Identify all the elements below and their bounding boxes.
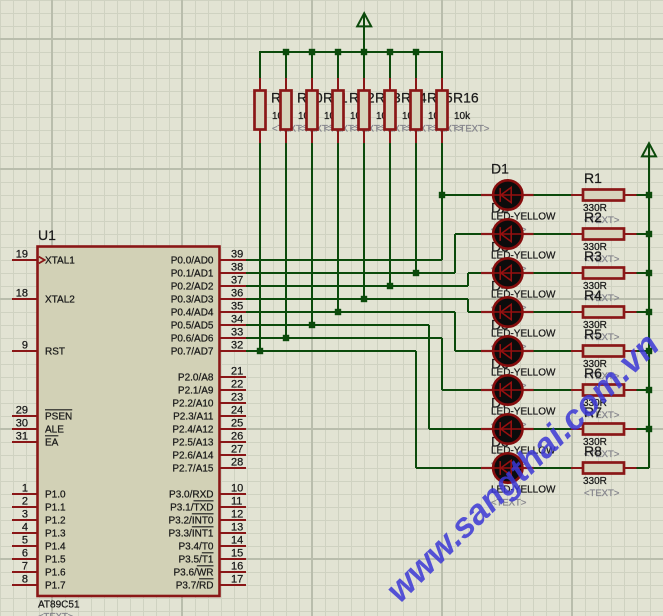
LED D5 (LED-YELLOW) [481, 336, 534, 365]
label R12 ref/value [349, 89, 386, 134]
svg-text:14: 14 [231, 535, 243, 547]
wire R14 bottom to P0 row [389, 143, 391, 286]
svg-text:P3.3/INT1: P3.3/INT1 [168, 529, 213, 540]
junction on right rail y=390 [646, 387, 652, 393]
svg-text:17: 17 [231, 574, 243, 586]
svg-text:<TEXT>: <TEXT> [584, 488, 620, 499]
pin 7 P1.6 (left) [12, 561, 66, 579]
wire P0.7 net [246, 351, 481, 468]
svg-text:35: 35 [231, 301, 243, 313]
resistor R8 (330R) [534, 463, 650, 474]
pin 21 P2.0/A8 (right) [178, 366, 246, 384]
svg-text:P0.3/AD3: P0.3/AD3 [171, 295, 214, 306]
junction on right rail y=312 [646, 309, 652, 315]
pin 27 P2.6/A14 (right) [172, 444, 246, 462]
svg-text:P2.4/A12: P2.4/A12 [172, 425, 214, 436]
wire P0.3 net [246, 299, 481, 312]
label R5 ref/value [583, 326, 620, 382]
junction on right rail y=234 [646, 231, 652, 237]
svg-text:1: 1 [22, 483, 28, 495]
pin 4 P1.3 (left) [12, 522, 66, 540]
svg-text:R5: R5 [584, 326, 602, 342]
LED D1 (LED-YELLOW) [481, 180, 534, 209]
resistor R6 (330R) [534, 385, 650, 396]
svg-text:11: 11 [231, 496, 242, 508]
label R16 ref/value [453, 89, 490, 134]
svg-text:P3.0/RXD: P3.0/RXD [169, 490, 213, 501]
pin 35 P0.4/AD4 (right) [171, 301, 246, 319]
svg-text:P0.6/AD6: P0.6/AD6 [171, 334, 214, 345]
resistor R7 (330R) [534, 424, 650, 435]
label D8 ref/value [491, 433, 556, 508]
svg-text:31: 31 [16, 431, 28, 443]
junction column x=286 on P0 row [283, 335, 289, 341]
wire P0.2 net [246, 273, 481, 286]
LED D4 (LED-YELLOW) [481, 297, 534, 326]
pin 36 P0.3/AD3 (right) [171, 288, 246, 306]
svg-text:D1: D1 [491, 160, 509, 176]
junction on top rail x=364 [361, 49, 367, 55]
svg-text:P0.7/AD7: P0.7/AD7 [171, 347, 214, 358]
pin 32 P0.7/AD7 (right) [171, 340, 246, 358]
svg-text:P2.7/A15: P2.7/A15 [172, 464, 214, 475]
svg-text:13: 13 [231, 522, 243, 534]
junction column x=338 on P0 row [335, 309, 341, 315]
svg-text:36: 36 [231, 288, 243, 300]
junction on top rail x=390 [387, 49, 393, 55]
svg-text:39: 39 [231, 249, 243, 261]
label R8 ref/value [583, 443, 620, 499]
junction on right rail y=195 [646, 192, 652, 198]
op-amp U1 body rect (AT89C51 microcontroller) [38, 247, 220, 597]
svg-text:AT89C51: AT89C51 [38, 599, 80, 610]
svg-text:23: 23 [231, 392, 243, 404]
wire P0.4 net [246, 312, 481, 351]
svg-text:8: 8 [22, 574, 28, 586]
wire R9 bottom to P0 row [259, 143, 261, 351]
svg-text:32: 32 [231, 340, 243, 352]
svg-text:P1.4: P1.4 [45, 542, 66, 553]
svg-text:3: 3 [22, 509, 28, 521]
svg-text:P3.7/RD: P3.7/RD [176, 581, 214, 592]
LED D3 (LED-YELLOW) [481, 258, 534, 287]
wire R10 bottom to P0 row [285, 143, 287, 338]
wire P0.5 net [246, 325, 481, 429]
svg-text:P1.3: P1.3 [45, 529, 66, 540]
label R15 ref/value [427, 89, 464, 134]
resistor R2 (330R) [534, 229, 650, 240]
svg-text:P0.1/AD1: P0.1/AD1 [171, 269, 214, 280]
svg-text:26: 26 [231, 431, 243, 443]
resistor R4 (330R) [534, 307, 650, 318]
pin 12 P3.2/INT0 (right) [168, 509, 246, 527]
svg-text:10: 10 [231, 483, 243, 495]
svg-text:R8: R8 [584, 443, 602, 459]
svg-text:PSEN: PSEN [45, 412, 72, 423]
svg-text:P2.1/A9: P2.1/A9 [178, 386, 214, 397]
label R4 ref/value [583, 287, 620, 343]
svg-text:R3: R3 [584, 248, 602, 264]
pin 11 P3.1/TXD (right) [170, 496, 246, 514]
resistor R10 (10k pull-up) [281, 52, 292, 143]
wire P0.6 net [246, 338, 481, 390]
svg-text:37: 37 [231, 275, 243, 287]
pin 29 PSEN (left) [12, 405, 72, 423]
pin 23 P2.2/A10 (right) [172, 392, 246, 410]
pin 31 EA (left) [12, 431, 59, 449]
junction on right rail y=351 [646, 348, 652, 354]
svg-text:38: 38 [231, 262, 243, 274]
svg-text:EA: EA [45, 438, 59, 449]
junction column x=390 on P0 row [387, 283, 393, 289]
svg-text:22: 22 [231, 379, 243, 391]
pin 38 P0.1/AD1 (right) [171, 262, 246, 280]
label R1 ref/value [583, 170, 620, 226]
svg-text:16: 16 [231, 561, 243, 573]
pin 39 P0.0/AD0 (right) [171, 249, 246, 267]
junction on right rail y=429 [646, 426, 652, 432]
pin 17 P3.7/RD (right) [176, 574, 246, 592]
svg-text:P0.5/AD5: P0.5/AD5 [171, 321, 214, 332]
pin 16 P3.6/WR (right) [173, 561, 246, 579]
pin 13 P3.3/INT1 (right) [168, 522, 246, 540]
svg-text:29: 29 [16, 405, 28, 417]
pin 14 P3.4/T0 (right) [178, 535, 246, 553]
svg-text:P1.5: P1.5 [45, 555, 66, 566]
label R11 ref/value [323, 89, 360, 134]
junction column x=416 on P0 row [413, 270, 419, 276]
LED D2 (LED-YELLOW) [481, 219, 534, 248]
power rail wire (right) [648, 143, 650, 468]
pin 19 XTAL1 (left) [12, 249, 75, 267]
pin 24 P2.3/A11 (right) [173, 405, 246, 423]
LED D8 (LED-YELLOW) [481, 453, 534, 482]
svg-text:P2.6/A14: P2.6/A14 [172, 451, 214, 462]
pin 37 P0.2/AD2 (right) [171, 275, 246, 293]
svg-text:P2.3/A11: P2.3/A11 [173, 412, 214, 423]
svg-text:10k: 10k [454, 111, 471, 122]
svg-text:P0.2/AD2: P0.2/AD2 [171, 282, 214, 293]
junction on top rail x=286 [283, 49, 289, 55]
label R6 ref/value [583, 365, 620, 421]
svg-text:P3.6/WR: P3.6/WR [173, 568, 213, 579]
resistor R16 (10k pull-up) [437, 52, 448, 143]
label D6 ref/value [491, 355, 556, 430]
label R3 ref/value [583, 248, 620, 304]
pin 34 P0.5/AD5 (right) [171, 314, 246, 332]
pin 30 ALE (left) [12, 418, 64, 436]
svg-text:P3.1/TXD: P3.1/TXD [170, 503, 213, 514]
svg-text:U1: U1 [38, 227, 56, 243]
pin 33 P0.6/AD6 (right) [171, 327, 246, 345]
pin 15 P3.5/T1 (right) [178, 548, 246, 566]
junction at (442,195) branch to D1 [439, 192, 445, 198]
svg-text:21: 21 [231, 366, 243, 378]
pin 10 P3.0/RXD (right) [169, 483, 246, 501]
resistor R11 (10k pull-up) [307, 52, 318, 143]
label R13 ref/value [375, 89, 412, 134]
label R7 ref/value [583, 404, 620, 460]
resistor R5 (330R) [534, 346, 650, 357]
label D3 ref/value [491, 238, 556, 313]
svg-text:RST: RST [45, 347, 65, 358]
svg-text:6: 6 [22, 548, 28, 560]
label D7 ref/value [491, 394, 556, 469]
pin 6 P1.5 (left) [12, 548, 66, 566]
wire R16 bottom to P0 row [441, 143, 443, 260]
svg-text:24: 24 [231, 405, 243, 417]
label R10 ref/value [297, 89, 334, 134]
svg-text:30: 30 [16, 418, 28, 430]
svg-text:R4: R4 [584, 287, 602, 303]
power rail wire (top) [259, 51, 443, 53]
pin 3 P1.2 (left) [12, 509, 66, 527]
svg-text:12: 12 [231, 509, 243, 521]
label D2 ref/value [491, 199, 556, 274]
wire P0.1 net [246, 234, 481, 273]
svg-text:28: 28 [231, 457, 243, 469]
pin 5 P1.4 (left) [12, 535, 66, 553]
svg-text:4: 4 [22, 522, 28, 534]
pin 9 RST (left) [12, 340, 65, 358]
svg-text:P1.6: P1.6 [45, 568, 66, 579]
label R14 ref/value [401, 89, 438, 134]
LED D6 (LED-YELLOW) [481, 375, 534, 404]
pin 8 P1.7 (left) [12, 574, 66, 592]
pin 26 P2.5/A13 (right) [172, 431, 246, 449]
svg-text:P1.1: P1.1 [45, 503, 66, 514]
label D5 ref/value [491, 316, 556, 391]
label R9 ref/value [271, 89, 308, 134]
resistor R12 (10k pull-up) [333, 52, 344, 143]
power symbol VCC (top) [357, 13, 371, 52]
svg-text:P1.7: P1.7 [45, 581, 66, 592]
svg-text:P0.0/AD0: P0.0/AD0 [171, 256, 214, 267]
svg-text:P1.0: P1.0 [45, 490, 66, 501]
svg-text:18: 18 [16, 288, 28, 300]
pin 1 P1.0 (left) [12, 483, 66, 501]
svg-text:P2.0/A8: P2.0/A8 [178, 373, 214, 384]
junction on top rail x=312 [309, 49, 315, 55]
svg-text:R16: R16 [453, 89, 479, 105]
resistor R14 (10k pull-up) [385, 52, 396, 143]
svg-text:R1: R1 [584, 170, 602, 186]
svg-text:XTAL2: XTAL2 [45, 295, 75, 306]
junction on top rail x=338 [335, 49, 341, 55]
junction column x=260 on P0 row [257, 348, 263, 354]
svg-text:P1.2: P1.2 [45, 516, 66, 527]
svg-text:P3.5/T1: P3.5/T1 [178, 555, 213, 566]
pin 18 XTAL2 (left) [12, 288, 75, 306]
svg-text:330R: 330R [583, 476, 607, 487]
svg-text:XTAL1: XTAL1 [45, 256, 75, 267]
svg-text:ALE: ALE [45, 425, 64, 436]
junction on right rail y=273 [646, 270, 652, 276]
svg-text:P2.2/A10: P2.2/A10 [172, 399, 214, 410]
svg-text:2: 2 [22, 496, 28, 508]
svg-text:9: 9 [22, 340, 28, 352]
LED D7 (LED-YELLOW) [481, 414, 534, 443]
label D1 ref/value [491, 160, 556, 235]
wire R12 bottom to P0 row [337, 143, 339, 312]
pin 2 P1.1 (left) [12, 496, 66, 514]
label R2 ref/value [583, 209, 620, 265]
svg-text:P0.4/AD4: P0.4/AD4 [171, 308, 214, 319]
svg-text:<TEXT>: <TEXT> [454, 124, 490, 135]
wire R11 bottom to P0 row [311, 143, 313, 325]
junction column x=312 on P0 row [309, 322, 315, 328]
svg-text:34: 34 [231, 314, 243, 326]
resistor R9 (10k pull-up) [255, 52, 266, 143]
junction column x=364 on P0 row [361, 296, 367, 302]
svg-text:19: 19 [16, 249, 28, 261]
svg-text:P2.5/A13: P2.5/A13 [172, 438, 214, 449]
svg-text:25: 25 [231, 418, 243, 430]
pin 28 P2.7/A15 (right) [172, 457, 246, 475]
power symbol VCC (right) [642, 143, 656, 156]
resistor R15 (10k pull-up) [411, 52, 422, 143]
resistor R3 (330R) [534, 268, 650, 279]
svg-text:15: 15 [231, 548, 243, 560]
svg-text:5: 5 [22, 535, 28, 547]
wire P0.0 net [246, 195, 481, 260]
resistor R1 (330R) [534, 190, 650, 201]
svg-text:33: 33 [231, 327, 243, 339]
pin 25 P2.4/A12 (right) [172, 418, 246, 436]
svg-text:P3.4/T0: P3.4/T0 [178, 542, 213, 553]
svg-text:27: 27 [231, 444, 243, 456]
svg-text:7: 7 [22, 561, 28, 573]
junction on top rail x=416 [413, 49, 419, 55]
svg-text:<TEXT>: <TEXT> [38, 611, 74, 616]
label D4 ref/value [491, 277, 556, 352]
resistor R13 (10k pull-up) [359, 52, 370, 143]
wire R13 bottom to P0 row [363, 143, 365, 299]
pin 22 P2.1/A9 (right) [178, 379, 246, 397]
svg-text:R2: R2 [584, 209, 602, 225]
svg-text:P3.2/INT0: P3.2/INT0 [168, 516, 213, 527]
wire R15 bottom to P0 row [415, 143, 417, 273]
